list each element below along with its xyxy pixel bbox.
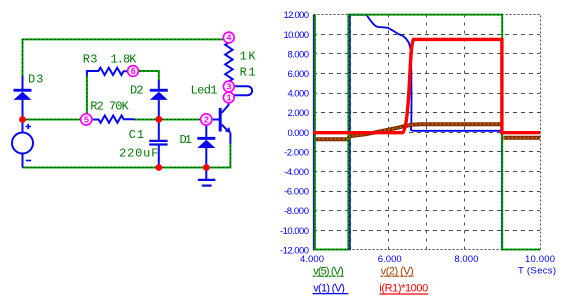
trace v(5) green [315,15,540,250]
junction dot at D1/ground [203,164,210,171]
svg-text:8.000: 8.000 [288,49,310,60]
diode D3 [14,76,32,120]
svg-text:T (Secs): T (Secs) [518,266,556,277]
svg-text:-4.000: -4.000 [284,167,309,178]
wire main bus left: junction to node 5 [23,119,81,121]
svg-text:v(1) (V): v(1) (V) [313,283,345,295]
svg-text:6.000: 6.000 [378,254,402,265]
svg-text:0.000: 0.000 [288,128,310,139]
diode D2 [150,80,168,120]
wire bottom bus and emitter riser [23,144,231,168]
svg-text:-6.000: -6.000 [284,187,309,198]
svg-text:1K: 1K [240,50,257,64]
svg-text:-8.000: -8.000 [284,206,309,217]
svg-text:R2 70K: R2 70K [90,100,129,114]
svg-text:D1: D1 [180,133,193,147]
wire top loop from source column to node 4 [23,39,224,76]
wire node 6 to D2 top [139,71,159,80]
svg-text:2.000: 2.000 [288,108,310,119]
junction dot at D2/C1 top [155,116,162,123]
svg-text:2: 2 [204,116,209,126]
resistor R2 [92,116,135,123]
svg-text:3: 3 [226,83,231,93]
junction dot at source/D3 [19,116,26,123]
svg-text:-10.000: -10.000 [280,226,309,237]
trace v(2) dark red [315,124,541,139]
transistor Q1 [212,102,231,144]
node 5 [81,114,92,126]
voltage source V1 [12,120,33,168]
svg-text:4: 4 [226,34,232,44]
svg-text:1: 1 [226,94,232,104]
svg-text:6: 6 [130,67,135,77]
wire main bus middle: R2 to node 2 [134,119,200,121]
svg-text:Led1: Led1 [191,84,218,98]
trace i(R1)*1000 red [313,39,540,132]
svg-text:10.000: 10.000 [525,254,555,265]
svg-text:4.000: 4.000 [300,254,324,265]
plot grid vertical lines [351,15,503,250]
ground [198,168,216,186]
node 6 [128,66,139,78]
svg-text:C1: C1 [129,128,145,142]
LED Led1 [229,86,252,95]
svg-text:R3: R3 [83,52,98,66]
plot grid horizontal lines [313,35,540,231]
svg-text:-2.000: -2.000 [284,147,309,158]
diode D1 [197,126,215,168]
svg-text:6.000: 6.000 [288,69,310,80]
wire node 5 up to R3 [86,75,88,114]
svg-text:8.000: 8.000 [454,254,478,265]
svg-text:12.000: 12.000 [284,10,310,21]
svg-text:R1: R1 [240,66,256,80]
node 3 [223,81,234,93]
legend v(1) (V) [313,283,349,295]
svg-text:4.000: 4.000 [288,89,310,100]
junction dot at C1 bottom [155,164,162,171]
legend v(2) (V) [380,266,413,278]
capacitor C1 [149,120,167,168]
svg-text:D3: D3 [28,73,44,87]
svg-text:1.8K: 1.8K [111,52,138,66]
resistor R1 [225,43,232,82]
legend i(R1)*1000 [379,283,428,295]
plot border [314,15,541,250]
svg-text:i(R1)*1000: i(R1)*1000 [379,283,428,295]
svg-text:220uF: 220uF [119,146,158,160]
resistor R3 [87,68,128,76]
svg-text:D2: D2 [130,83,144,97]
trace v(1) blue [314,15,540,250]
node 1 [223,92,234,104]
svg-text:5: 5 [84,116,89,126]
node 4 [223,32,234,44]
node 2 [201,114,212,126]
legend v(5) (V) [313,266,345,278]
svg-text:10.000: 10.000 [284,30,310,41]
